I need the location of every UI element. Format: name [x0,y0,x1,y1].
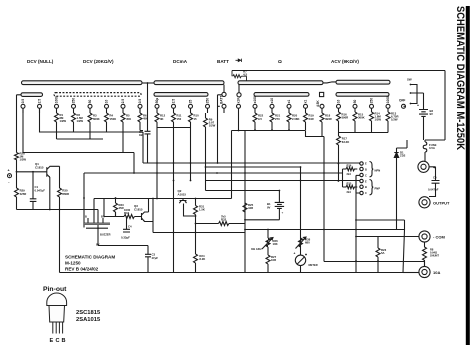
contact 1000V [105,104,109,108]
pin B pnp [360,185,363,188]
svg-text:0.5A: 0.5A [429,146,435,150]
svg-text:M-1250: M-1250 [65,261,81,266]
fuse F1 [423,142,436,161]
switch SW contacts [404,78,424,108]
svg-text:E: E [50,338,54,344]
contact 2.5mA [172,104,176,108]
trimmer C6 [139,83,151,163]
svg-text:1000: 1000 [55,96,59,103]
contact x10 [270,104,274,108]
border left stub [59,210,61,273]
svg-text:680: 680 [305,241,310,245]
terminal OUTPUT [419,197,450,208]
wire x1 jog to 0-adj rail [306,131,325,174]
wire bus y245.5 [98,245,148,247]
svg-text:0.5: 0.5 [21,99,25,104]
terminal 10A [419,266,441,277]
wire ohm bridge [238,85,240,93]
wire drop x300.5 [300,167,302,255]
hFE socket contacts [343,161,381,195]
resistor R1 [55,113,67,139]
switch contact circles row [21,104,406,113]
loop box [342,169,344,187]
wire bus y173 [84,172,343,174]
wire bus y127.5 [157,127,191,129]
svg-text:50μ: 50μ [155,98,159,104]
brace PNP [370,180,374,195]
wire BATT bridge [223,85,225,93]
svg-text:270: 270 [275,117,280,121]
resistor R31 [194,199,205,224]
rotary switch bar (row2 mid) [154,93,208,97]
svg-text:R36: R36 [347,163,352,167]
svg-text:SCHEMATIC DIAGRAM M-1250K: SCHEMATIC DIAGRAM M-1250K [454,6,466,151]
svg-text:2.5: 2.5 [172,99,176,104]
input terminal [8,169,12,185]
svg-text:C1815: C1815 [134,207,143,211]
contact x1K [237,104,241,108]
rotary switch bar A (row1 DCV) [22,81,143,85]
contact 4.5K [320,104,324,108]
wire bus y223.5 [196,223,219,225]
svg-text:2.5: 2.5 [38,99,42,104]
pin C npn [360,173,363,176]
svg-text:0Ω ADJ: 0Ω ADJ [251,247,262,251]
svg-text:2.08K: 2.08K [292,117,299,121]
svg-text:-: - [8,181,10,185]
svg-text:B: B [365,185,367,189]
resistor R27 [266,253,277,273]
svg-text:25: 25 [189,100,193,104]
svg-text:47μF: 47μF [152,256,159,260]
rotary switch bar B (row1 DCmA) [154,81,224,85]
row2 contact circle BATT [222,92,226,96]
border bottom [60,272,404,274]
contact AC250 [370,104,374,108]
resistor R33 [114,199,125,217]
wire bus y229.5 [245,229,405,231]
svg-text:0.33μF: 0.33μF [121,236,130,240]
svg-text:1/2W: 1/2W [391,118,398,122]
svg-text:DCV (20KΩ/V): DCV (20KΩ/V) [83,59,114,64]
svg-text:C4: C4 [128,225,132,229]
svg-text:Pin-out: Pin-out [43,286,67,293]
svg-text:9V: 9V [430,112,434,116]
svg-text:10: 10 [105,100,109,104]
buzzer BZ [84,215,111,247]
svg-text:2k4: 2k4 [347,190,352,194]
svg-text:B: B [365,167,367,171]
svg-text:0.5: 0.5 [138,99,142,104]
svg-text:10K: 10K [273,242,278,246]
wire pin C npn [356,174,360,176]
pin E npn [360,162,363,165]
border right lower jog [397,230,405,273]
wire bus y180.5 [206,180,360,182]
svg-text:C1815: C1815 [35,165,44,169]
resistor R17 [337,133,350,182]
wire right loop x153 [152,198,154,233]
svg-text:4.5K: 4.5K [316,100,320,107]
svg-text:+: + [417,104,419,108]
resistor R36 [343,167,358,171]
svg-text:10R: 10R [271,258,276,262]
svg-text:45R: 45R [119,206,124,210]
resistor R20 [287,113,299,130]
trimmer R38 [296,237,311,249]
wire bus y163 [143,162,360,164]
contact 50V [72,104,76,108]
svg-text:1/2W: 1/2W [77,119,84,123]
svg-text:ZD2: ZD2 [400,154,406,158]
resistor R13 [386,112,398,133]
contact AC50 [353,104,357,108]
wire bus y132 [40,109,144,164]
contact x1b [304,104,308,108]
contact x [138,104,142,108]
pin C pnp [360,191,363,194]
svg-text:PNP: PNP [375,187,381,191]
wire border to 10A [403,272,419,274]
wire bus y167 [206,166,301,168]
resistor R25 [243,203,254,212]
svg-text:45K: 45K [143,117,148,121]
svg-text:1/2W: 1/2W [209,124,216,128]
svg-text:9V: 9V [267,205,271,209]
contact BATT [222,104,226,108]
wire bus y216.5 [104,199,127,217]
resistor R5 [121,113,131,153]
resistor R15 [353,112,365,133]
svg-text:4.5: 4.5 [243,73,248,77]
resistor R7 4.5R (top, at border notch) [232,70,248,84]
titleblock SCHEMATIC DIAGRAM [65,255,115,272]
resistor R23 [376,237,387,273]
svg-text:250: 250 [72,98,76,104]
contact OFF [402,104,406,108]
transistor Q1 [35,162,60,209]
resistor R14 [370,112,382,133]
zener D1 [394,140,407,230]
wire riser x134 [133,153,135,174]
border right [444,71,446,141]
wire bus y152.5 [23,109,134,153]
svg-text:1.5K: 1.5K [199,208,205,212]
wire bus y198.5 [94,199,232,224]
resistor R4 [105,113,117,132]
resistor R28 [15,152,27,162]
resistor R34 [124,208,142,219]
svg-text:A1015: A1015 [178,192,187,196]
svg-text:45K: 45K [126,117,131,121]
resistor R30 [58,166,70,209]
svg-text:250: 250 [370,98,374,104]
resistor R21 [270,113,281,130]
svg-text:x1: x1 [304,100,308,104]
svg-text:7k5: 7k5 [221,215,226,219]
wire pin C pnp [356,175,360,193]
svg-text:x100: x100 [253,96,257,103]
wire pin E npn [358,163,361,165]
svg-text:50: 50 [88,100,92,104]
svg-text:50: 50 [353,100,357,104]
contact value labels (rotated) [21,96,405,107]
resistor R11 [172,113,182,273]
svg-text:0.047μF: 0.047μF [428,188,439,192]
battery B1 [267,191,284,220]
rotary switch bar C (row1 ohms) [238,81,323,85]
svg-text:1B: 1B [139,133,143,137]
svg-text:C: C [365,173,367,177]
wire bus y130 (ohm section) [232,130,306,132]
svg-text:METER: METER [309,263,318,267]
svg-text:x1: x1 [287,100,291,104]
pin B npn [360,167,363,170]
svg-text:SCHEMATIC DIAGRAM: SCHEMATIC DIAGRAM [65,255,115,260]
svg-text:390R: 390R [325,117,332,121]
svg-text:x1K: x1K [237,97,241,104]
capacitor C3 [145,246,158,273]
svg-text:150: 150 [177,117,182,121]
wire bus y209.5 [17,209,99,211]
svg-text:3K: 3K [160,117,164,121]
terminal plus [418,161,436,172]
svg-text:10A: 10A [433,270,440,275]
rotary switch bar D (row1 ACV) [336,80,390,84]
potentiometer R26 (0-ohm adj) [251,230,278,254]
svg-text:OUTPUT: OUTPUT [433,201,450,206]
wire bar C to bar D [323,82,337,83]
wire drop x324 [323,173,325,262]
transistor package TO-92 [47,293,67,334]
wire bus y190.5 [206,190,280,192]
wire bus y139 [57,138,104,139]
contact 2.5V [38,104,42,108]
contact 25mA [189,104,193,108]
rotary switch bar E (row2 ACV) [336,93,389,97]
left rail [17,95,22,188]
contact 50uA [155,104,159,108]
contact 250mA [206,104,210,108]
svg-text:BATT: BATT [220,96,224,104]
svg-text:+: + [8,169,10,173]
resistor R2 [72,113,84,132]
wire ACV bus y132.5 [339,132,389,134]
svg-text:24R: 24R [309,117,314,121]
svg-text:OFF: OFF [399,99,405,103]
transistor Q3 [134,199,153,222]
pinout lead labels E C B [50,338,66,344]
resistor R16 [337,112,349,133]
svg-text:15: 15 [194,117,198,121]
svg-text:2SC1815: 2SC1815 [76,310,101,316]
svg-text:150K: 150K [110,117,117,121]
svg-text:+: + [282,211,284,215]
svg-text:+: + [294,252,296,256]
pin E pnp [360,179,363,182]
resistor R12 [155,113,166,199]
wire y140 top-right [425,140,445,142]
resistor R18 [320,113,332,137]
resistor R9 [204,113,216,191]
svg-text:600K: 600K [93,117,100,121]
wire drop x245 [244,130,246,273]
svg-text:SW: SW [407,78,412,82]
svg-text:1/2W: 1/2W [20,158,27,162]
svg-text:B: B [85,215,87,219]
svg-text:C: C [56,338,60,344]
svg-text:SHUNT: SHUNT [430,254,439,258]
resistor R24 [194,224,206,273]
contact 25V [121,104,125,108]
capacitor C4 [121,217,132,240]
svg-text:R35: R35 [347,181,352,185]
svg-text:C5: C5 [433,176,437,180]
wire BATT bracket [218,95,222,163]
resistor R3 [88,113,100,139]
resistor R6 [138,109,148,131]
svg-text:44R: 44R [248,206,253,210]
svg-text:ACV (9KΩ/V): ACV (9KΩ/V) [331,59,359,64]
svg-text:NPN: NPN [375,169,381,173]
rotary switch dashed bar (row2) [54,93,141,97]
svg-text:1000: 1000 [124,208,131,212]
resistor R29 [15,188,27,210]
svg-text:2SA1015: 2SA1015 [76,317,101,323]
svg-text:B: B [62,338,66,344]
wire hFE to border y220 [356,220,405,230]
svg-text:360K: 360K [358,116,365,120]
svg-text:5A: 5A [381,251,385,255]
capacitor C1 [30,172,45,210]
rotary switch bar (row2 ohms) [254,93,309,97]
svg-text:Ω: Ω [278,59,282,65]
brace NPN [370,162,374,177]
battery B2 [417,104,434,141]
terminal COM [419,231,446,242]
wire drop x98 [97,210,99,246]
wire drop x84 [83,173,85,228]
svg-text:2.5: 2.5 [121,99,125,104]
svg-text:REV B 04/24/02: REV B 04/24/02 [65,267,99,272]
border top [232,70,445,72]
svg-text:BUZZER: BUZZER [100,233,111,237]
row2 contact square [320,92,324,96]
BATT arrow [236,59,242,62]
resistor R22 [253,113,264,130]
wire x1K contact down [238,113,240,131]
svg-text:1/2W: 1/2W [60,119,67,123]
shunt resistor R8 [423,242,440,266]
contact 0.5V [21,104,25,108]
svg-text:9.5: 9.5 [258,117,262,121]
wire drop x356 [355,175,357,272]
wire bus y232.5 [153,232,245,234]
svg-text:0.047μF: 0.047μF [35,188,46,192]
wire battery link y219.8 [245,219,279,221]
svg-text:860R: 860R [62,192,69,196]
capacitor C5 [428,167,440,197]
svg-text:2k4: 2k4 [347,172,352,176]
svg-text:x10: x10 [270,98,274,104]
wire bus y261 [324,262,425,267]
svg-text:DCV (NULL): DCV (NULL) [27,59,54,64]
svg-text:1/2W: 1/2W [375,118,382,122]
wire bus y236.5 [356,236,419,238]
svg-text:BATT: BATT [217,59,229,64]
svg-text:425R: 425R [20,192,27,196]
meter M1 [294,252,318,273]
pinout type labels [76,310,101,323]
transistor Q2 [178,189,196,216]
resistor R32 (inline) [219,215,246,226]
resistor R35 [343,185,358,189]
svg-text:C: C [365,191,367,195]
contact 250V [88,104,92,108]
contact AC10 [337,104,341,108]
svg-text:- COM: - COM [433,235,445,240]
contact AC1000 [386,104,390,108]
svg-text:8.2K: 8.2K [199,257,205,261]
title bar (right edge black rule) [466,6,470,345]
wire drop x231.5 [231,131,233,199]
wire bar A to bar B [142,82,154,84]
svg-text:390R: 390R [342,116,349,120]
contact x100 [253,104,257,108]
svg-text:1000: 1000 [386,96,390,103]
svg-text:250: 250 [206,98,210,104]
rotary switch small bar (row2 left) [21,93,43,97]
contact 10V [55,104,59,108]
svg-text:E: E [365,161,367,165]
svg-text:10: 10 [337,100,341,104]
row2 contact circle ohm [237,93,241,97]
resistor R19 [304,113,315,130]
svg-text:63.2K: 63.2K [342,140,349,144]
svg-text:E: E [365,179,367,183]
resistor R10 [189,113,200,181]
contact x1 [287,104,291,108]
svg-text:DCmA: DCmA [173,59,188,64]
wire base y171.8 [17,171,47,173]
